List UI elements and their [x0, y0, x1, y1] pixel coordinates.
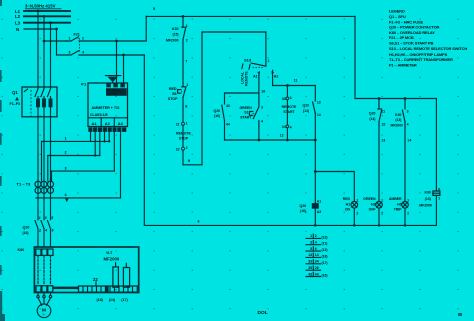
- svg-text:(14): (14): [109, 298, 116, 302]
- svg-text:1: 1: [310, 234, 312, 238]
- label terminal refs (18) (14) (17): [97, 298, 129, 302]
- svg-text:Q1 – SFU: Q1 – SFU: [389, 14, 406, 19]
- wire L2 bus: [15, 14, 70, 19]
- svg-text:A1: A1: [253, 75, 258, 79]
- svg-text:5: 5: [310, 247, 312, 251]
- current transformer T1-T3: [17, 181, 54, 193]
- svg-text:(11): (11): [322, 242, 328, 246]
- svg-text:GREEN: GREEN: [240, 106, 253, 110]
- svg-text:14: 14: [317, 113, 321, 117]
- overload relay K80: [18, 248, 54, 255]
- wire L1 bus: [15, 9, 70, 14]
- svg-text:MF2000: MF2000: [104, 257, 120, 262]
- wire 7: [183, 40, 187, 87]
- svg-text:S6,S1 – STOP, START PB: S6,S1 – STOP, START PB: [389, 41, 434, 46]
- svg-text:CLASS:1/5: CLASS:1/5: [90, 113, 108, 117]
- svg-text:T1 – T3: T1 – T3: [17, 181, 32, 186]
- svg-text:VLT: VLT: [106, 251, 113, 255]
- svg-text:Q20: Q20: [300, 204, 307, 208]
- breaker F21 2P MCB: [67, 32, 146, 55]
- node A2 remote feed: [272, 70, 279, 85]
- svg-text:2: 2: [407, 211, 409, 215]
- svg-text:2: 2: [356, 211, 358, 215]
- svg-text:33: 33: [308, 260, 312, 264]
- svg-text:1: 1: [39, 216, 41, 220]
- svg-text:12: 12: [280, 134, 284, 138]
- svg-text:8: 8: [185, 105, 187, 109]
- svg-text:2: 2: [186, 39, 188, 43]
- ground earth symbol at P1: [106, 76, 121, 83]
- svg-text:LEGEND: LEGEND: [389, 9, 405, 14]
- svg-text:GREEN: GREEN: [363, 197, 376, 201]
- svg-text:34: 34: [315, 260, 319, 264]
- wire 2 CT secondary: [48, 151, 100, 181]
- svg-text:(16): (16): [23, 231, 29, 235]
- contact Q20 21-22 NC: [369, 99, 386, 127]
- svg-text:2: 2: [186, 146, 188, 150]
- drive VLT MF2000 box: [34, 247, 138, 293]
- wire 9 to selector feed: [183, 32, 266, 165]
- svg-text:DOL: DOL: [258, 310, 268, 316]
- svg-text:1: 1: [268, 59, 270, 63]
- wire 1 CT secondary: [42, 137, 110, 181]
- svg-text:(16): (16): [300, 209, 306, 213]
- svg-text:S1: S1: [244, 111, 248, 115]
- svg-text:MF2000: MF2000: [166, 39, 179, 43]
- svg-text:K90: K90: [425, 191, 431, 195]
- svg-text:3~N,50Hz 415V: 3~N,50Hz 415V: [25, 4, 56, 9]
- svg-text:(13): (13): [395, 118, 401, 122]
- svg-text:(15): (15): [172, 32, 178, 36]
- svg-text:H6: H6: [397, 202, 401, 206]
- svg-text:MPR300: MPR300: [107, 89, 120, 93]
- svg-text:2: 2: [315, 234, 317, 238]
- wire P1 terminal drops: [91, 132, 121, 198]
- svg-text:P1 – AMMETER: P1 – AMMETER: [389, 63, 417, 68]
- svg-text:H1,H2,H6 – ON/OFF/TRIP LAMPS: H1,H2,H6 – ON/OFF/TRIP LAMPS: [389, 52, 448, 57]
- svg-text:RED: RED: [343, 197, 351, 201]
- wire bus drop right: [354, 16, 356, 98]
- svg-text:1: 1: [407, 198, 409, 202]
- svg-text:(17): (17): [322, 261, 328, 265]
- svg-text:OFF: OFF: [369, 208, 377, 212]
- svg-text:16: 16: [261, 90, 265, 94]
- svg-text:3: 3: [69, 51, 71, 55]
- svg-text:A2: A2: [317, 210, 321, 214]
- svg-text:13: 13: [381, 139, 385, 143]
- lamp H6 AMBER TRIP: [389, 197, 409, 225]
- svg-text:L3: L3: [15, 21, 21, 26]
- svg-text:22: 22: [176, 147, 180, 151]
- svg-text:14: 14: [315, 253, 319, 257]
- wire 6 neutral bottom rail: [144, 219, 436, 226]
- svg-text:5: 5: [153, 7, 155, 11]
- svg-text:A2: A2: [274, 75, 279, 79]
- svg-text:3~: 3~: [42, 313, 46, 317]
- svg-text:STOP: STOP: [168, 97, 178, 101]
- wire L2 drop: [43, 15, 46, 89]
- svg-text:34: 34: [282, 125, 286, 129]
- svg-text:S6: S6: [172, 92, 176, 96]
- svg-text:(18): (18): [97, 298, 104, 302]
- svg-text:L2: L2: [15, 14, 21, 19]
- svg-text:1: 1: [186, 121, 188, 125]
- ground arrow on CT common: [65, 198, 69, 202]
- svg-text:START: START: [283, 110, 295, 114]
- svg-text:5: 5: [51, 216, 53, 220]
- contactor Q20 main contacts: [23, 216, 54, 247]
- wire 16: [261, 90, 265, 94]
- svg-text:L1: L1: [15, 9, 21, 14]
- svg-text:7: 7: [185, 60, 187, 64]
- svg-text:F1–F3: F1–F3: [10, 102, 20, 106]
- wire control phase tap from L2: [43, 40, 67, 43]
- svg-text:REMOTE: REMOTE: [245, 71, 249, 86]
- svg-text:K30: K30: [172, 27, 179, 31]
- wire control neutral tap from N: [55, 28, 67, 55]
- svg-text:(12): (12): [322, 248, 328, 252]
- svg-text:(13): (13): [322, 235, 328, 239]
- svg-text:(14): (14): [369, 117, 375, 121]
- lamp H2 GREEN OFF: [363, 197, 383, 225]
- wire neutral drop to bottom rail: [143, 55, 145, 225]
- svg-text:K80: K80: [18, 248, 25, 252]
- wire ammeter phase tap: [115, 40, 118, 83]
- svg-text:START: START: [240, 116, 252, 120]
- node A1 local feed: [253, 71, 260, 93]
- pushbutton S1 START NO: [240, 93, 264, 140]
- svg-text:13: 13: [308, 253, 312, 257]
- terminal 33 remote start: [282, 86, 292, 101]
- wire phases Q1 to CT: [38, 116, 51, 220]
- label DOL: [258, 310, 268, 316]
- wire N bus: [16, 27, 57, 32]
- contact K30 (13) MF2000 NO: [390, 99, 408, 128]
- svg-text:4: 4: [261, 119, 263, 123]
- svg-text:K30: K30: [395, 113, 401, 117]
- svg-text:(13): (13): [425, 197, 431, 201]
- wire L3 bus: [15, 21, 70, 26]
- svg-text:REMOTE: REMOTE: [282, 105, 297, 109]
- svg-text:1: 1: [65, 137, 67, 141]
- svg-text:11: 11: [294, 79, 298, 83]
- svg-text:2: 2: [381, 211, 383, 215]
- svg-text:25: 25: [308, 266, 312, 270]
- wire 13: [379, 122, 385, 202]
- contact Q20 13-14 NO holding: [303, 86, 321, 141]
- wire 11 remote rail: [273, 79, 316, 87]
- contact K30 (15) MF2000 NC: [166, 16, 188, 42]
- svg-text:MF2000: MF2000: [390, 124, 403, 128]
- pushbutton S6 STOP NC: [168, 83, 188, 101]
- wire L1 drop: [37, 10, 40, 89]
- svg-text:4: 4: [82, 51, 84, 55]
- svg-text:33: 33: [282, 97, 286, 101]
- terminal 21 remote stop: [176, 121, 188, 126]
- svg-text:4: 4: [315, 241, 317, 245]
- svg-text:22: 22: [382, 122, 386, 126]
- svg-text:A2: A2: [105, 121, 111, 126]
- svg-text:43: 43: [226, 104, 230, 108]
- svg-text:2: 2: [65, 151, 67, 155]
- svg-text:0-600A: 0-600A: [108, 93, 117, 96]
- svg-text:A1: A1: [317, 200, 321, 204]
- contactor coil Q20 A1-A2: [300, 200, 322, 226]
- svg-text:2: 2: [82, 37, 84, 41]
- svg-text:STOP: STOP: [179, 137, 189, 141]
- svg-text:H1: H1: [346, 202, 350, 206]
- label REMOTE STOP: [176, 132, 191, 141]
- svg-text:3: 3: [65, 166, 67, 170]
- svg-text:N: N: [16, 27, 19, 32]
- svg-text:F21: F21: [74, 32, 80, 36]
- svg-text:MF2000: MF2000: [419, 204, 432, 208]
- wire 3 CT secondary: [52, 166, 115, 181]
- svg-text:1: 1: [186, 83, 188, 87]
- svg-text:21: 21: [381, 110, 385, 114]
- svg-text:9: 9: [188, 159, 190, 163]
- terminal 22 remote stop: [176, 125, 188, 151]
- wire 8: [183, 98, 187, 123]
- motor M 3~: [37, 292, 52, 318]
- svg-text:S13: S13: [244, 58, 252, 63]
- svg-text:Q20: Q20: [303, 104, 310, 108]
- svg-text:1: 1: [381, 198, 383, 202]
- svg-text:TRIP: TRIP: [394, 208, 402, 212]
- svg-text:26: 26: [315, 266, 319, 270]
- svg-text:1: 1: [356, 198, 358, 202]
- svg-text:AMBER: AMBER: [389, 197, 402, 201]
- svg-text:4: 4: [407, 122, 409, 126]
- svg-text:(17): (17): [121, 298, 128, 302]
- svg-text:P1: P1: [81, 82, 87, 87]
- svg-text:Q20 – POWER CONTACTOR: Q20 – POWER CONTACTOR: [389, 25, 440, 30]
- wire coil feed: [314, 140, 317, 203]
- svg-text:3: 3: [45, 216, 47, 220]
- svg-text:Q1: Q1: [12, 90, 18, 95]
- terminal 34 remote start: [282, 100, 292, 130]
- svg-text:1: 1: [186, 24, 188, 28]
- svg-text:6: 6: [315, 247, 317, 251]
- wire start rail: [225, 139, 317, 142]
- svg-text:F1–F3 – HRC FUSE: F1–F3 – HRC FUSE: [389, 19, 424, 24]
- wire ammeter neutral tap: [122, 54, 125, 83]
- wire 14: [405, 122, 411, 202]
- svg-text:3: 3: [290, 96, 292, 100]
- svg-text:21: 21: [176, 123, 180, 127]
- svg-text:AMMETER + T/S: AMMETER + T/S: [92, 106, 121, 110]
- svg-text:6: 6: [198, 219, 200, 223]
- svg-text:7: 7: [438, 197, 440, 201]
- svg-text:43: 43: [308, 272, 312, 276]
- svg-text:Q20: Q20: [214, 109, 221, 113]
- svg-text:Q20: Q20: [369, 112, 376, 116]
- wire 5 control bus: [146, 7, 355, 18]
- svg-text:Q20: Q20: [23, 226, 30, 230]
- wire lamp rail: [355, 97, 436, 100]
- svg-text:3: 3: [310, 241, 312, 245]
- wire to ON lamp: [315, 172, 354, 202]
- svg-text:3: 3: [407, 110, 409, 114]
- svg-text:3: 3: [261, 106, 263, 110]
- ammeter P1: [81, 82, 127, 133]
- svg-text:K80 – OVERLOAD RELAY: K80 – OVERLOAD RELAY: [389, 30, 435, 35]
- svg-text:14: 14: [407, 139, 411, 143]
- svg-text:REMOTE: REMOTE: [176, 132, 191, 136]
- switch-fuse Q1 F1-F3: [10, 87, 58, 117]
- wire 4 CT common: [36, 193, 121, 198]
- wire 12: [280, 128, 288, 140]
- svg-text:A3: A3: [118, 121, 124, 126]
- wire local parallel loop top: [225, 92, 259, 94]
- legend: [389, 9, 467, 68]
- svg-text:(18): (18): [322, 254, 328, 258]
- label REMOTE START: [282, 105, 297, 114]
- table Q20 contact cross-reference: [306, 234, 328, 277]
- selector switch S13 LOCAL/REMOTE: [240, 58, 269, 86]
- svg-text:6: 6: [52, 229, 54, 233]
- svg-text:F21 – 2P MCB: F21 – 2P MCB: [389, 35, 414, 40]
- svg-text:(14): (14): [303, 109, 309, 113]
- lamp H1 RED ON: [343, 197, 359, 225]
- svg-text:RED: RED: [169, 87, 177, 91]
- svg-text:44: 44: [315, 272, 319, 276]
- wire 5 control bus riser: [145, 16, 147, 41]
- wire L3 drop: [49, 21, 52, 88]
- net 3~N,50Hz 415V title: [25, 4, 62, 9]
- svg-text:44: 44: [226, 123, 230, 127]
- svg-text:T1–T3 – CURRENT TRANSFORMER: T1–T3 – CURRENT TRANSFORMER: [389, 57, 453, 62]
- relay K90 (13) MF2000 terminal 6-7: [419, 99, 440, 226]
- svg-text:H2: H2: [371, 202, 375, 206]
- svg-text:A1: A1: [92, 121, 98, 126]
- svg-text:ON: ON: [345, 208, 351, 212]
- svg-text:(16): (16): [322, 274, 328, 278]
- svg-text:(16): (16): [214, 114, 220, 118]
- svg-text:S13 – LOCAL REMOTE SELECTOR SW: S13 – LOCAL REMOTE SELECTOR SWITCH: [389, 46, 467, 51]
- svg-text:13: 13: [317, 100, 321, 104]
- svg-text:4: 4: [290, 125, 292, 129]
- contact Q20 43-44 NO: [214, 93, 230, 140]
- svg-text:1: 1: [69, 37, 71, 41]
